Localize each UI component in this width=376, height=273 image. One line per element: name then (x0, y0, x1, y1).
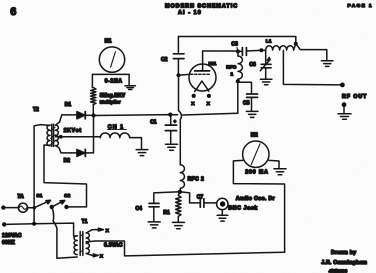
node C1 junction (168, 113, 172, 117)
svg-text:C3: C3 (231, 42, 238, 48)
inductor L1 (266, 39, 294, 50)
wire S1 to T1 primary (52, 207, 77, 258)
svg-text:+: + (174, 119, 177, 124)
capacitor C3 (231, 42, 261, 56)
meter M2 (243, 132, 269, 167)
wire D2 cathode riser (85, 116, 93, 153)
node L1 right (294, 42, 298, 50)
node plate junction (236, 49, 240, 53)
tube V1 811 envelope (189, 61, 217, 91)
terminal AC hot (1, 205, 5, 209)
node S1 output (50, 205, 54, 209)
wire T2 primary bottom to S2 (44, 145, 87, 207)
switch S1 (33, 193, 51, 210)
tube filament pin left (191, 94, 195, 107)
title line 1 (165, 4, 238, 10)
wire RFC2 node to C4 (154, 192, 180, 203)
node RFC1 bottom (236, 79, 240, 83)
wire M1 bracket (92, 74, 129, 87)
svg-text:R1: R1 (163, 210, 170, 216)
node B+ (92, 113, 96, 117)
wire M2 left lead (233, 160, 284, 252)
wire T1 center tap rail (86, 241, 284, 256)
wire top bus (178, 37, 295, 44)
svg-text:S1: S1 (36, 193, 42, 199)
terminal RF ground (342, 102, 347, 113)
variable capacitor C6 (249, 57, 271, 78)
title line 2 (178, 10, 202, 16)
choke RFC2 (180, 160, 204, 192)
terminal RF OUT (340, 83, 367, 101)
label 2KVct (64, 128, 82, 134)
wire RFC1 node to C5 (238, 82, 252, 93)
tube filament (195, 81, 209, 92)
ground C6 (260, 79, 272, 85)
capacitor C7 (197, 195, 217, 208)
choke RFC1 (226, 51, 242, 81)
wire fuse to S1 (28, 207, 35, 209)
svg-text:M2: M2 (251, 132, 258, 138)
ground R1 (172, 222, 184, 228)
svg-text:PAGE 1: PAGE 1 (348, 3, 373, 9)
svg-text:RFC 2: RFC 2 (188, 176, 205, 182)
capacitor C1 (150, 115, 176, 144)
wire CH1 to ground (130, 138, 142, 149)
wire center tap to CH1 (56, 135, 101, 139)
wire L1 to ground (296, 44, 327, 60)
svg-text:811: 811 (209, 61, 217, 67)
node RFC2 bottom (178, 190, 182, 194)
svg-text:0-1MA: 0-1MA (105, 78, 123, 84)
ground M2 (274, 169, 286, 175)
resistor R1 (163, 192, 181, 222)
svg-text:S2: S2 (64, 193, 70, 199)
svg-text:J.R. Cunningham: J.R. Cunningham (321, 260, 367, 266)
svg-text:C6: C6 (249, 62, 256, 68)
resistor 3Meg multiplier (91, 88, 126, 105)
connector BNC jack (217, 198, 228, 209)
diode D1 (65, 102, 86, 119)
fuse F1 7A (17, 194, 27, 212)
meter M1 (99, 38, 124, 72)
wire hot to fuse (3, 207, 18, 209)
svg-text:C4: C4 (136, 206, 143, 212)
svg-text:3Meg./2KV: 3Meg./2KV (100, 93, 126, 99)
svg-text:60HZ: 60HZ (2, 240, 15, 246)
svg-text:120VAC: 120VAC (2, 233, 22, 239)
svg-text:6: 6 (10, 6, 16, 18)
svg-text:MODERN SCHEMATIC: MODERN SCHEMATIC (165, 4, 238, 10)
svg-text:D1: D1 (65, 102, 72, 108)
svg-text:C2: C2 (161, 57, 168, 63)
wire top bus to C2 (177, 37, 179, 54)
wire RFC1 to bus (237, 81, 239, 113)
svg-text:T1: T1 (82, 219, 88, 225)
wire D1 to B+ node (85, 114, 93, 116)
svg-text:1: 1 (231, 71, 234, 77)
svg-text:200 MA: 200 MA (245, 169, 269, 175)
transformer T2 (33, 107, 58, 147)
svg-text:7A: 7A (17, 194, 24, 200)
wire T2 primary top to neutral riser (34, 125, 50, 224)
svg-text:C5: C5 (243, 101, 250, 107)
wire RF tap (283, 50, 342, 85)
ground RF OUT (338, 114, 351, 120)
svg-text:RFC: RFC (226, 65, 236, 71)
credit text (321, 250, 367, 273)
wire resistor to B+ node (92, 105, 94, 116)
wire T1 sec bottom X (86, 253, 104, 259)
ground BNC (217, 215, 228, 221)
svg-text:C7: C7 (197, 195, 204, 201)
ground L1 (321, 61, 333, 67)
wire tank to C6 (261, 50, 265, 64)
wire grid to tube (179, 73, 190, 76)
tube filament pin right (207, 94, 211, 107)
wire M2 right lead (269, 160, 279, 168)
wire T2 sec bottom to D2 (56, 146, 77, 153)
svg-text:RF OUT: RF OUT (342, 94, 367, 100)
capacitor C2 (161, 54, 184, 75)
svg-text:T2: T2 (33, 107, 39, 113)
node grid junction (177, 73, 181, 77)
ground C4 (148, 222, 160, 228)
svg-text:6.3VAC: 6.3VAC (104, 243, 123, 249)
svg-text:C1: C1 (150, 120, 157, 126)
node neutral T2 riser (32, 222, 36, 226)
svg-text:D2: D2 (64, 158, 71, 164)
terminal AC neutral (2, 222, 6, 226)
diode D2 (64, 149, 86, 164)
wire BNC to ground (221, 210, 223, 215)
switch S2 (52, 193, 71, 207)
choke CH1 (100, 124, 129, 137)
svg-text:Multiplier: Multiplier (100, 99, 121, 104)
ground CH1 (136, 150, 148, 156)
capacitor C4 (136, 203, 160, 221)
ground C5 (246, 111, 258, 117)
tube grid (191, 73, 211, 75)
svg-text:2KVct: 2KVct (64, 128, 82, 134)
label audio input (228, 196, 275, 212)
wire T1 sec top X (86, 228, 109, 234)
wire RFC2 node to C7 (180, 192, 200, 203)
label M2 scale (245, 169, 269, 175)
svg-text:4/5/2000: 4/5/2000 (329, 269, 348, 273)
wire grid line (179, 75, 182, 160)
tube plate (195, 51, 210, 71)
svg-text:L1: L1 (266, 39, 272, 45)
label AC input (2, 233, 22, 246)
svg-text:Audio Osc. Dr: Audio Osc. Dr (236, 196, 275, 202)
svg-text:BNC Jack: BNC Jack (228, 206, 258, 212)
page number (10, 6, 16, 18)
label 6.3VAC (104, 243, 123, 249)
transformer T1 (74, 219, 89, 256)
ground M1 (125, 86, 135, 90)
svg-text:M1: M1 (105, 38, 112, 44)
capacitor C5 (243, 94, 258, 111)
wire B+ bus (94, 113, 238, 115)
M1 scale label (105, 78, 123, 84)
wire plate line (203, 50, 238, 52)
svg-text:Drawn by: Drawn by (331, 250, 356, 256)
wire neutral (4, 223, 77, 236)
svg-text:AI - 10: AI - 10 (178, 10, 202, 16)
page label (348, 3, 373, 9)
node S2 output (64, 205, 68, 209)
node tank junction (259, 48, 263, 52)
ground C1 (166, 144, 178, 150)
wire T2 sec top to D1 (56, 115, 77, 125)
